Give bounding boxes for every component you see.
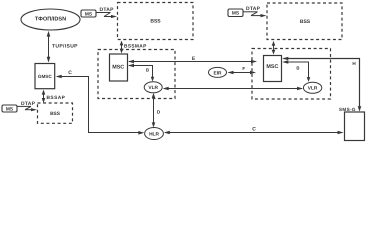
box MS1 [81, 10, 96, 17]
svg-text:MS: MS [232, 11, 240, 17]
svg-text:GMSC: GMSC [38, 74, 52, 79]
svg-text:F: F [242, 66, 245, 71]
wire BSSMAP MSC2-BSS2 [272, 41, 276, 55]
svg-text:VLR: VLR [308, 86, 318, 92]
box MSC1 [110, 54, 128, 81]
wire DTAP air interface 1 [97, 7, 118, 18]
svg-text:D: D [157, 110, 161, 115]
box BSS2 dashed [267, 3, 342, 40]
wire TUP/ISUP [47, 31, 78, 63]
svg-text:EIR: EIR [214, 70, 223, 76]
wire BSSMAP MSC1-BSS1 [120, 41, 147, 54]
svg-text:MSC: MSC [112, 64, 124, 70]
wire D interface VLR1-HLR [152, 93, 161, 128]
box MSC2 [264, 56, 282, 82]
svg-text:VLR: VLR [148, 85, 158, 91]
box BSS3 dashed [38, 103, 73, 123]
svg-text:BSS: BSS [150, 18, 161, 24]
svg-text:B: B [146, 67, 149, 72]
box MS2 [228, 9, 243, 17]
svg-text:MS: MS [6, 106, 14, 112]
svg-text:BSS: BSS [50, 111, 61, 117]
svg-text:SMS-G: SMS-G [339, 107, 356, 112]
wire BSSAP GMSC-BSS [42, 90, 66, 103]
svg-text:HLR: HLR [149, 131, 159, 137]
wire E interface MSC1-MSC2 [128, 56, 257, 63]
wire C interface HLR-SMSGMSC [164, 127, 344, 135]
box MSC/VLR subsystem 1 dashed [98, 50, 175, 99]
wire B interface MSC1-VLR1 [128, 64, 154, 82]
svg-text:H: H [352, 61, 356, 66]
node EIR [209, 67, 227, 77]
box SMS-GMSC [339, 107, 365, 140]
wire B interface MSC2-VLR2 [282, 60, 310, 82]
svg-text:BSSMAP: BSSMAP [124, 44, 147, 50]
svg-text:C: C [68, 70, 72, 76]
wire C interface GMSC-HLR [56, 70, 145, 135]
box MS3 [2, 105, 17, 112]
svg-text:BSS: BSS [300, 19, 311, 25]
wire H interface MSC2-SMSGMSC [282, 57, 361, 112]
svg-text:DTAP: DTAP [246, 6, 261, 12]
node VLR1 [144, 82, 162, 93]
wire G interface VLR1-VLR2 [163, 87, 303, 91]
box BSS1 dashed [118, 3, 194, 40]
svg-text:C: C [252, 127, 256, 133]
node PSTN/ISDN ellipse [21, 9, 80, 30]
svg-text:TUP/ISUP: TUP/ISUP [52, 43, 78, 49]
svg-text:MS: MS [85, 11, 93, 17]
node VLR2 [303, 82, 321, 93]
svg-text:MSC: MSC [266, 64, 278, 70]
svg-text:ТФОП/IDSN: ТФОП/IDSN [35, 16, 66, 23]
svg-text:B: B [296, 66, 299, 71]
box MSC/VLR subsystem 2 dashed [252, 49, 331, 100]
wire DTAP air interface 2 [244, 6, 267, 17]
node HLR [145, 128, 164, 140]
svg-text:BSSAP: BSSAP [47, 95, 66, 101]
wire F interface EIR-MSC2 [228, 66, 257, 74]
wire DTAP air interface 3 [18, 101, 38, 111]
box GMSC [35, 64, 55, 89]
